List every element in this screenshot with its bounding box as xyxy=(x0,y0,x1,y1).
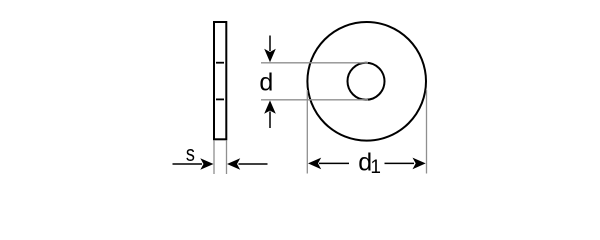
extension line d1 right xyxy=(426,90,428,174)
washer side view body xyxy=(214,22,226,139)
hole edge tick upper (side view) xyxy=(216,62,224,64)
dimension line d1 right with arrow xyxy=(385,162,415,164)
arrow d down xyxy=(269,36,271,52)
svg-text:d: d xyxy=(259,69,273,97)
arrow d up xyxy=(269,112,271,129)
extension line d1 left xyxy=(306,90,308,174)
hole edge tick lower (side view) xyxy=(216,98,224,100)
washer front view outer circle xyxy=(307,22,426,141)
tangent line d top xyxy=(261,62,368,64)
extension line s left xyxy=(213,140,215,174)
dimension line s left with arrow xyxy=(173,163,203,165)
dimension line d1 left with arrow xyxy=(319,162,349,164)
svg-text:s: s xyxy=(186,142,195,166)
tangent line d bottom xyxy=(261,99,368,101)
dimension line s right with arrow xyxy=(239,163,268,165)
svg-text:1: 1 xyxy=(370,157,381,178)
washer front view inner hole xyxy=(348,63,385,100)
extension line s right xyxy=(226,140,228,174)
